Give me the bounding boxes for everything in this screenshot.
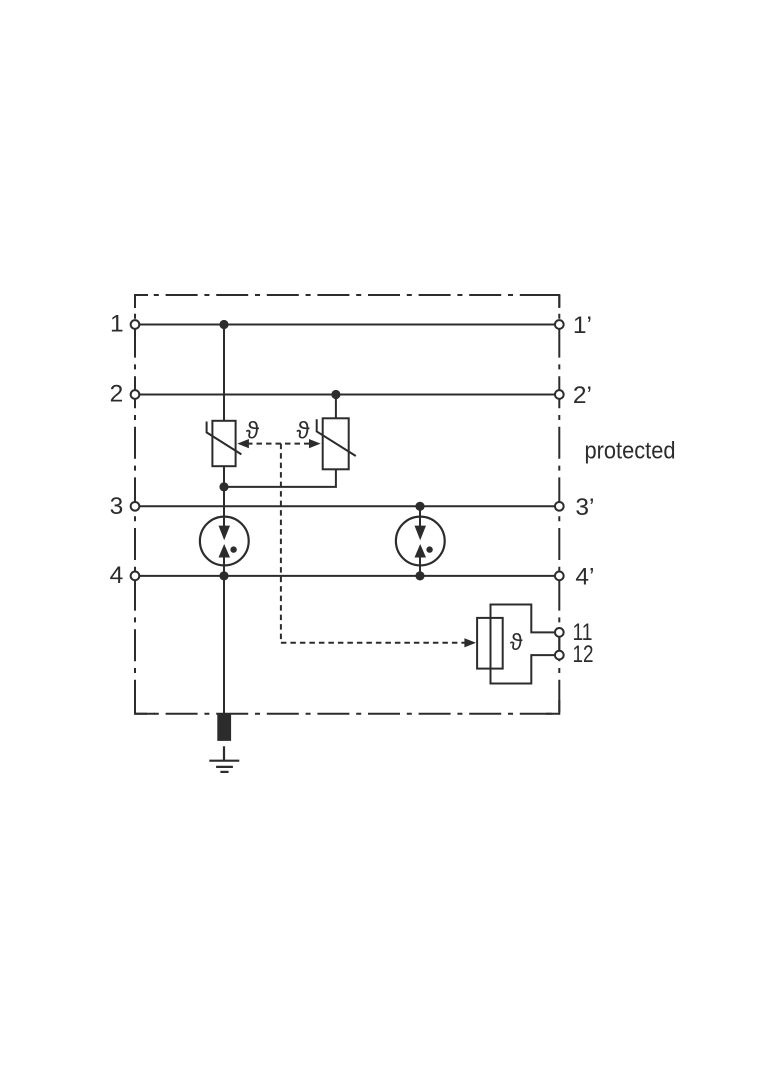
spark gap F1 upper arrow (down) [219, 526, 231, 541]
ground symbol bar 2 [216, 766, 233, 768]
wire from varistor RV2 bottom to node A [224, 469, 336, 487]
ground symbol stem [223, 746, 225, 760]
arrowhead right of thermal coupling arrow [309, 439, 321, 448]
junction dot on line 2 [331, 390, 340, 399]
spark gap F2 upper arrow (down) [415, 526, 427, 541]
junction dot on line 4 at F2 [415, 571, 424, 580]
svg-text:1’: 1’ [573, 312, 592, 339]
wire line 2 (terminal 2 to 2') [135, 394, 559, 396]
spark gap F1 lower arrow (up) [219, 544, 231, 558]
svg-text:3’: 3’ [575, 494, 594, 521]
svg-text:3: 3 [110, 493, 124, 520]
terminal 12 [555, 651, 564, 660]
wire spark gap F2 bottom to line 4 [419, 555, 421, 576]
wire line 3 (terminal 3 to 3') [135, 505, 559, 507]
thermal coupling dashed line down [280, 444, 282, 643]
terminal 3 [131, 502, 140, 511]
svg-text:12: 12 [573, 641, 594, 668]
arrowhead into thermal disconnector [464, 638, 476, 647]
wire line 3 to spark gap F2 top [419, 506, 421, 527]
solid border segment between terminals 11 and 12 [558, 636, 560, 651]
dash-dot enclosure border left [134, 295, 136, 714]
wire line 4 (terminal 4 to 4') [135, 575, 559, 577]
svg-text:ϑ: ϑ [297, 417, 310, 444]
svg-text:2: 2 [110, 381, 124, 408]
terminal 2' [555, 390, 564, 399]
svg-text:protected: protected [585, 438, 676, 465]
thermal disconnector housing U1 [491, 605, 555, 684]
terminal 1' [555, 320, 564, 329]
wire node A to spark gap F1 top [223, 506, 225, 527]
svg-text:4: 4 [110, 562, 124, 589]
varistor RV2 diagonal stroke [317, 419, 356, 456]
svg-text:ϑ: ϑ [246, 417, 259, 444]
terminal 2 [131, 390, 140, 399]
terminal 1 [131, 320, 140, 329]
wire spark gap F1 bottom to line 4 [223, 555, 225, 576]
ground symbol bar 3 [220, 771, 228, 773]
earth connection black block [217, 714, 231, 741]
wire line 1 (terminal 1 to 1') [135, 324, 559, 326]
varistor RV1 diagonal stroke [207, 422, 242, 455]
thermal disconnector element box [477, 618, 503, 669]
wire from line 2 down to varistor RV2 [335, 395, 337, 419]
border corner top-left [135, 295, 148, 308]
ground symbol bar 1 [209, 760, 239, 762]
varistor RV2 body [323, 418, 349, 469]
border corner top-right [546, 295, 559, 308]
thermal coupling dashed arrow between RV1 and RV2 [247, 443, 311, 445]
terminal 4' [555, 572, 564, 581]
wire from line 1 down to varistor RV1 [223, 325, 225, 421]
spark gap F1 dot electrode [230, 546, 236, 552]
terminal 11 [555, 628, 564, 637]
junction dot on line 1 [219, 320, 228, 329]
svg-text:1: 1 [110, 311, 124, 338]
dash-dot enclosure border bottom [135, 713, 559, 715]
border corner bottom-left [135, 700, 155, 714]
dash-dot enclosure border top [135, 294, 559, 296]
wire from varistor RV1 bottom to node A [223, 466, 225, 506]
arrowhead left of thermal coupling arrow [237, 439, 249, 448]
spark gap F2 dot electrode [426, 546, 432, 552]
terminal 3' [555, 502, 564, 511]
svg-text:4’: 4’ [575, 564, 594, 591]
svg-text:ϑ: ϑ [510, 629, 523, 655]
spark gap F1 circle [200, 517, 249, 566]
terminal 4 [131, 572, 140, 581]
border corner bottom-right [546, 700, 559, 714]
junction dot on line 4 at F1 [219, 571, 228, 580]
thermal coupling dashed line to disconnector [281, 642, 465, 644]
junction dot on line 3 at F2 [415, 502, 424, 511]
wire earth conductor from line 4 down [223, 576, 225, 714]
svg-text:2’: 2’ [573, 382, 592, 409]
spark gap F2 circle [396, 517, 445, 566]
junction node A below RV1 [219, 482, 228, 491]
spark gap F2 lower arrow (up) [415, 544, 427, 558]
varistor RV1 body [212, 421, 235, 466]
dash-dot enclosure border right [558, 295, 560, 714]
